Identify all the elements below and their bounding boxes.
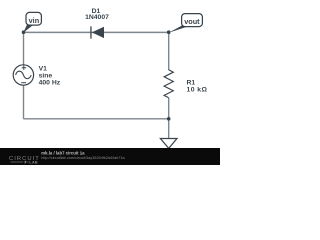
footer logo underline dash left [11, 161, 24, 163]
wire right vertical upper (vout node to R1 top) [168, 32, 170, 70]
resistor R1 [164, 70, 173, 98]
svg-text:mk.la / lab7 circuit 1a: mk.la / lab7 circuit 1a [41, 150, 85, 155]
vin flag bubble [26, 12, 41, 25]
wire bottom horizontal rail [24, 118, 169, 120]
vout flag bubble [182, 14, 203, 27]
node dot vin [22, 30, 26, 34]
ground [160, 139, 177, 149]
svg-text:V1: V1 [39, 66, 48, 73]
svg-text:LAB: LAB [29, 161, 38, 165]
svg-text:10 kΩ: 10 kΩ [187, 87, 208, 94]
diode D1 [90, 26, 104, 38]
svg-text:http://circuitlab.com/circuit/: http://circuitlab.com/circuit/3ay3526r9k… [41, 156, 125, 160]
wire top horizontal vin to vout [24, 31, 169, 33]
svg-text:R1: R1 [187, 79, 196, 86]
vout flag tail [169, 26, 188, 33]
svg-text:vout: vout [184, 17, 200, 26]
node dot vout [167, 30, 171, 34]
wire left vertical lower (V1 bottom to bottom rail) [23, 85, 25, 119]
wire left vertical upper (vin node to V1 top) [23, 32, 25, 65]
footer logo lightning bolt [24, 160, 27, 164]
footer bar [0, 148, 220, 165]
vin flag tail [23, 25, 33, 33]
footer logo underline dash right [27, 161, 29, 163]
voltage source V1 [13, 65, 33, 85]
node junction bottom right [167, 117, 171, 121]
svg-text:400 Hz: 400 Hz [39, 79, 61, 86]
wire right vertical lower (R1 bottom to ground) [168, 98, 170, 138]
svg-text:vin: vin [29, 16, 40, 25]
svg-text:1N4007: 1N4007 [85, 14, 109, 21]
